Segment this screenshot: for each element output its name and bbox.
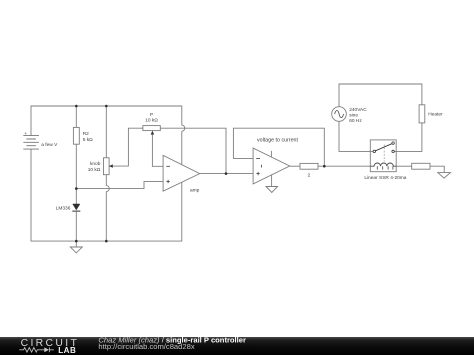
wire sense resistor to SSR coil [318, 165, 370, 167]
node top rail R2 [75, 105, 78, 108]
wire op-amp V- pin to ground [271, 175, 273, 187]
op-amp voltage to current [253, 138, 298, 184]
svg-text:2: 2 [308, 172, 311, 178]
wire current sense feedback to inverting input [233, 128, 324, 166]
wire knob top [105, 106, 107, 158]
wire hop over feedback wire [182, 125, 185, 131]
node bottom rail knob [105, 240, 108, 243]
wire R2 bottom to LM336 [75, 144, 77, 204]
logo zigzag resistor [19, 348, 44, 353]
svg-text:voltage to current: voltage to current [257, 138, 298, 144]
potentiometer knob 10 kOhm [88, 158, 113, 175]
svg-text:knob: knob [90, 161, 101, 167]
relay Linear SSR 4-20ma [364, 140, 406, 181]
svg-text:LM336: LM336 [56, 205, 71, 211]
svg-text:amp: amp [190, 188, 200, 193]
battery V1 a few V [23, 132, 58, 149]
resistor output [412, 163, 430, 169]
op-amp amp [163, 155, 200, 193]
wire op-amp V+ drop [181, 131, 183, 165]
ground under op-amp [266, 187, 278, 193]
wire R2 top [75, 106, 77, 127]
wire resistor to ground [430, 166, 444, 172]
resistor Heater [419, 105, 443, 123]
resistor 2 [300, 163, 318, 178]
voltage reference LM336 [56, 204, 81, 211]
svg-text:Heater: Heater [428, 112, 443, 118]
svg-text:LAB: LAB [58, 346, 76, 355]
wire knob wiper to P left terminal [112, 128, 143, 166]
svg-text:sine: sine [349, 113, 358, 119]
wire AC source bottom to SSR contact [339, 121, 370, 151]
wire SSR coil out to resistor [396, 165, 412, 167]
wire heater bottom to SSR contact [396, 123, 422, 151]
wire P right terminal feedback to amp output [160, 128, 226, 173]
node top rail knob [105, 105, 108, 108]
svg-text:60 Hz: 60 Hz [349, 118, 362, 124]
node reference [75, 187, 78, 190]
ground right [438, 173, 451, 179]
svg-text:10 kΩ: 10 kΩ [145, 118, 158, 124]
wire op-amp output to sense resistor [290, 165, 300, 167]
wire knob bottom with hop [105, 175, 107, 186]
wire LM336 bottom [75, 212, 77, 242]
wire P wiper to op-amp inverting input [152, 134, 163, 166]
ground bottom rail [70, 241, 82, 253]
potentiometer P 10 kOhm [143, 112, 160, 135]
node bottom rail ground [75, 240, 78, 243]
logo diode [44, 347, 49, 352]
svg-text:P: P [150, 112, 153, 118]
wire battery bottom + bottom rail + op-amp V- riser [31, 149, 182, 241]
svg-text:240VAC: 240VAC [349, 107, 367, 113]
svg-text:Linear SSR 4-20ma: Linear SSR 4-20ma [364, 175, 406, 181]
voltage source 240VAC sine 60 Hz [332, 107, 368, 124]
resistor R2 5 kOhm [73, 127, 93, 144]
node amp output [225, 172, 228, 175]
footer bar [0, 337, 474, 355]
svg-text:+: + [24, 132, 27, 137]
node sense [323, 165, 326, 168]
svg-text:10 kΩ: 10 kΩ [88, 167, 101, 173]
svg-text:a few V: a few V [41, 142, 58, 148]
wire top rail from battery to op-amp V+ [31, 106, 182, 136]
svg-text:R2: R2 [83, 131, 89, 137]
svg-text:http://circuitlab.com/c8ad28x: http://circuitlab.com/c8ad28x [98, 342, 194, 351]
svg-text:5 kΩ: 5 kΩ [83, 137, 93, 143]
wire AC loop top [339, 84, 422, 107]
wire reference node to op-amp non-inverting input [76, 181, 163, 188]
wire amp output to voltage-to-current + input [200, 173, 253, 175]
